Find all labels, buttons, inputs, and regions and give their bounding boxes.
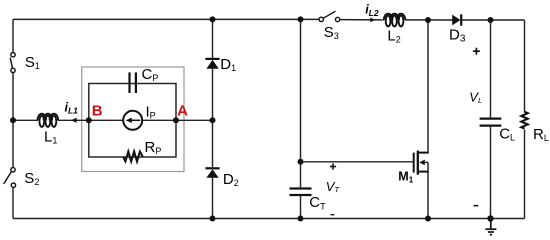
- svg-text:S1: S1: [25, 54, 40, 71]
- svg-text:D2: D2: [223, 171, 239, 188]
- label CL: [499, 126, 515, 143]
- junction dot diode branch bottom: [210, 216, 216, 222]
- inductor L1: [38, 114, 59, 127]
- plus sign VT: [330, 163, 336, 169]
- wire left rail middle: [12, 72, 14, 120]
- junction dot M1 source bottom: [425, 216, 431, 222]
- node B: [86, 103, 103, 124]
- junction dot CT branch bottom: [298, 216, 304, 222]
- svg-text:S3: S3: [324, 24, 339, 41]
- plus sign VL: [473, 48, 480, 55]
- svg-text:D1: D1: [220, 56, 236, 73]
- svg-text:CL: CL: [499, 126, 515, 143]
- wire gate of M1: [301, 161, 414, 163]
- wire left rail upper: [12, 19, 14, 52]
- label IP: [146, 104, 156, 121]
- junction dot CL branch top: [488, 17, 494, 23]
- label D1: [220, 56, 236, 73]
- wire node A to diode branch: [176, 119, 213, 121]
- junction dot diode branch top: [210, 16, 216, 22]
- svg-text:M1: M1: [398, 170, 413, 185]
- capacitor CT: [290, 189, 312, 196]
- svg-text:L2: L2: [387, 27, 400, 44]
- wire top rail S3 to L2: [340, 19, 384, 21]
- svg-text:S2: S2: [24, 170, 39, 187]
- svg-text:D3: D3: [449, 27, 466, 45]
- wire top rail D3 to right corner: [462, 19, 525, 21]
- wire CT branch junction to capacitor: [300, 162, 302, 188]
- svg-text:VL: VL: [469, 90, 482, 106]
- wire M1 source down: [427, 162, 429, 218]
- wire diode branch between D1 and junction: [212, 69, 214, 121]
- label CT: [309, 194, 326, 212]
- svg-text:RP: RP: [145, 139, 162, 156]
- svg-text:B: B: [92, 103, 103, 120]
- junction dot diode branch middle: [210, 117, 216, 123]
- resistor RL: [521, 112, 527, 129]
- wire middle rail left to L1: [13, 119, 38, 121]
- wire current source to node A: [142, 119, 176, 121]
- junction dot L2 D3 node: [425, 17, 431, 23]
- wire CT branch top: [300, 19, 302, 161]
- current source IP: [123, 111, 142, 130]
- wire left rail lower: [12, 120, 14, 168]
- wire bottom rail: [13, 218, 525, 220]
- switch S1: [10, 53, 15, 73]
- current arrow iL1: [71, 118, 76, 123]
- label iL2: [365, 3, 379, 18]
- wire M1 body stub: [424, 161, 428, 163]
- node A: [173, 103, 188, 124]
- mosfet M1: [414, 151, 429, 175]
- ground: [485, 219, 496, 235]
- wire L1 to node B: [58, 119, 89, 121]
- label D3: [449, 27, 466, 45]
- inductor L2: [384, 14, 406, 27]
- junction dot ground node: [487, 215, 493, 221]
- gray enclosure box: [82, 67, 184, 172]
- svg-text:iL2: iL2: [365, 3, 379, 18]
- label CP: [142, 66, 159, 83]
- wire right rail upper: [524, 20, 526, 112]
- wire M1 drain up: [427, 20, 429, 154]
- wire diode branch junction to D2: [212, 120, 214, 167]
- label VL: [469, 90, 482, 106]
- wire CT branch capacitor to bottom: [300, 196, 302, 219]
- diode D1: [205, 59, 219, 69]
- label RP: [145, 139, 162, 156]
- wire CL branch bottom: [490, 127, 492, 219]
- label iL1: [65, 100, 79, 115]
- minus sign VT: [331, 214, 335, 216]
- wire diode branch D1 upper: [212, 19, 214, 58]
- svg-text:IP: IP: [146, 104, 156, 121]
- wire right rail lower: [524, 130, 526, 219]
- diode D2: [205, 168, 219, 177]
- minus sign VL: [474, 205, 479, 207]
- label VT: [326, 179, 341, 194]
- svg-text:L1: L1: [44, 128, 57, 145]
- wire left rail bottom: [12, 187, 14, 218]
- label L2: [387, 27, 400, 44]
- svg-text:VT: VT: [326, 179, 341, 194]
- wire diode branch D2 to bottom: [212, 178, 214, 219]
- junction dot CT branch top: [298, 16, 304, 22]
- label S3: [324, 24, 339, 41]
- wire node B to current source: [89, 119, 124, 121]
- diode D3: [452, 14, 461, 25]
- wire top rail L2 to D3: [405, 19, 453, 21]
- label M1: [398, 170, 413, 185]
- svg-text:A: A: [177, 103, 188, 120]
- inner box of parasitic model: [89, 84, 176, 158]
- label S1: [25, 54, 40, 71]
- switch S2: [4, 168, 16, 188]
- label L1: [44, 128, 57, 145]
- capacitor CP: [130, 72, 136, 93]
- junction dot left rail middle: [10, 117, 16, 123]
- current arrow iL2: [370, 18, 375, 23]
- svg-text:iL1: iL1: [65, 100, 79, 115]
- wire CL branch top: [490, 20, 492, 118]
- svg-text:CP: CP: [142, 66, 159, 83]
- label S2: [24, 170, 39, 187]
- wire top rail left segment: [13, 18, 319, 20]
- svg-text:CT: CT: [309, 194, 326, 212]
- junction dot CT gate node: [298, 159, 304, 165]
- svg-text:RL: RL: [533, 126, 549, 143]
- resistor RP: [123, 152, 143, 162]
- label D2: [223, 171, 239, 188]
- switch S3: [319, 11, 340, 21]
- label RL: [533, 126, 549, 143]
- capacitor CL: [480, 119, 502, 126]
